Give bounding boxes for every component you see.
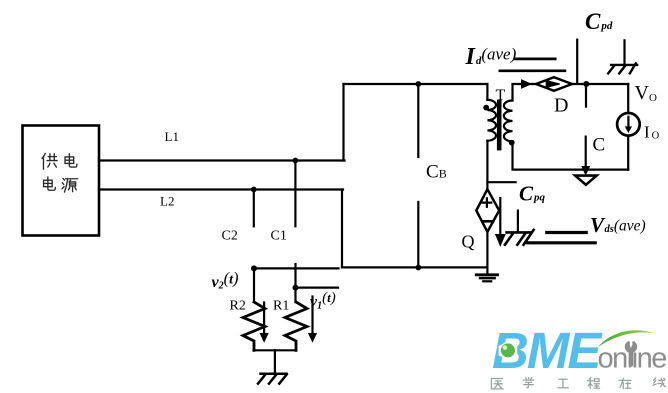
ground top-right stem (623, 40, 625, 64)
capacitor C bottom lead (585, 137, 587, 168)
capacitor C top lead (585, 84, 587, 107)
ground lower-left bar (261, 373, 287, 376)
capacitor C1 lead (294, 161, 296, 227)
arrow v1 (308, 297, 317, 343)
capacitor Cpq lead (517, 211, 519, 232)
diode D inner arrow (546, 81, 560, 88)
capacitor CB bottom lead (417, 202, 419, 268)
ground lower-left stem (274, 350, 276, 373)
logo BME online (492, 322, 666, 379)
wire Q drain stub (487, 181, 515, 183)
diode D diamond (536, 77, 572, 91)
wire L1 (99, 159, 345, 161)
transistor Q minus sign (483, 220, 492, 223)
wire L2 (99, 188, 343, 190)
node CB top junction (415, 81, 421, 87)
svg-text:R1: R1 (273, 299, 289, 314)
ground Q bars (476, 273, 497, 276)
wire left vertical from L2 to bottom rail (341, 190, 343, 268)
node output junction (583, 81, 589, 87)
wire top-left vertical from L1 to top rail (342, 84, 344, 161)
bars Id(ave) (500, 59, 565, 71)
wire resistor bottom (254, 349, 297, 351)
svg-text:Q: Q (462, 232, 475, 252)
ground Cpq bar (507, 231, 532, 234)
bars Vds(ave) (528, 233, 596, 243)
wire bottom rail (342, 266, 487, 268)
transformer T primary polarity dot (483, 105, 489, 111)
wire output right side (627, 84, 629, 170)
current source IO circle (617, 113, 640, 136)
resistor R2 zigzag (243, 302, 265, 350)
ground Cpq slashes (505, 230, 534, 245)
transformer T primary coil (487, 100, 496, 141)
svg-text:R2: R2 (230, 299, 246, 314)
wire secondary bottom to output (513, 141, 629, 169)
arrow Id on top wire (522, 80, 530, 87)
arrow v2 (260, 303, 269, 343)
text 医学工程在线 (491, 377, 665, 388)
resistor R2 top lead (253, 268, 255, 302)
text 供电 电源 inside box (42, 153, 78, 192)
node v2 junction (251, 265, 257, 271)
wire secondary top to output (513, 84, 629, 101)
svg-text:C2: C2 (222, 229, 238, 244)
wire v1 horizontal (296, 287, 339, 289)
transistor Q diamond (476, 189, 499, 232)
transformer T primary wire upper (486, 84, 488, 100)
transformer T secondary coil (504, 101, 513, 142)
arrow Vds beside Q (495, 198, 506, 247)
capacitor C lead arrowhead (582, 167, 589, 175)
capacitor CB top lead (417, 84, 419, 157)
ground Q stem (486, 267, 488, 274)
transistor Q plus sign (483, 198, 492, 206)
node CB bottom junction (415, 265, 421, 271)
capacitor C2 lead (253, 190, 255, 227)
svg-text:Vds(ave): Vds(ave) (590, 213, 646, 237)
node v1 junction (293, 285, 299, 291)
source box 供电电源 (23, 126, 100, 236)
current source IO arrow (625, 117, 632, 133)
ground output open triangle (575, 176, 596, 185)
ground top-right bar (611, 64, 637, 66)
resistor R1 zigzag (285, 302, 307, 350)
ground top-right slashes (608, 63, 636, 73)
node C2 on L2 (251, 187, 257, 193)
svg-text:L2: L2 (160, 194, 174, 209)
resistor R1 top lead (294, 264, 296, 302)
node C1 on L1 (293, 158, 299, 164)
transformer T secondary polarity dot (509, 140, 515, 146)
svg-text:D: D (554, 95, 568, 117)
ground lower-left slashes (258, 374, 287, 383)
svg-text:C1: C1 (271, 229, 287, 244)
svg-text:T: T (496, 87, 506, 104)
wire top rail (344, 83, 488, 85)
svg-text:L1: L1 (165, 129, 179, 144)
wire Q source (486, 232, 488, 268)
svg-text:C: C (593, 134, 606, 155)
wire v2 horizontal (254, 267, 339, 269)
capacitor Cpd lead (576, 40, 578, 84)
transformer T primary wire lower (486, 141, 488, 190)
transformer T core (497, 100, 502, 151)
